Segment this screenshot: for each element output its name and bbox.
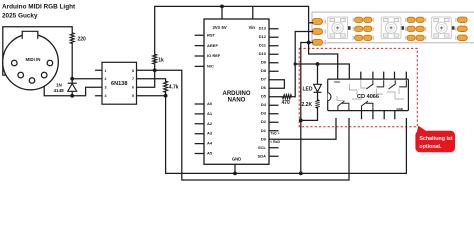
svg-text:RST: RST [207, 32, 216, 37]
svg-text:4148: 4148 [54, 88, 65, 93]
svg-text:3V3: 3V3 [213, 25, 221, 30]
svg-text:Schaltung ist: Schaltung ist [419, 136, 452, 142]
svg-text:D0: D0 [261, 136, 267, 141]
svg-text:D4: D4 [261, 102, 267, 107]
svg-text:5: 5 [132, 94, 134, 98]
svg-text:D10: D10 [259, 51, 267, 56]
svg-text:D9: D9 [261, 60, 267, 65]
svg-text:6: 6 [132, 86, 134, 90]
svg-text:3: 3 [105, 86, 107, 90]
svg-text:Vin: Vin [249, 25, 256, 30]
svg-text:A4: A4 [207, 141, 213, 146]
svg-text:VCC: VCC [334, 80, 341, 84]
svg-text:2.2K: 2.2K [302, 102, 313, 108]
svg-text:ARDUINO: ARDUINO [223, 91, 251, 97]
svg-text:D12: D12 [259, 34, 267, 39]
svg-text:A0: A0 [207, 101, 213, 106]
svg-text:4.7k: 4.7k [169, 85, 179, 91]
svg-text:IO REF: IO REF [207, 53, 221, 58]
svg-text:TxD >: TxD > [270, 132, 279, 136]
svg-text:A1: A1 [207, 111, 213, 116]
svg-text:A2: A2 [207, 121, 213, 126]
svg-text:D3: D3 [261, 111, 267, 116]
svg-text:SCL: SCL [258, 145, 267, 150]
svg-text:2025 Gucky: 2025 Gucky [2, 13, 38, 20]
svg-text:D5: D5 [261, 94, 267, 99]
svg-text:A3: A3 [207, 131, 213, 136]
svg-text:8: 8 [132, 69, 134, 73]
svg-text:LED: LED [303, 86, 313, 92]
svg-text:D8: D8 [261, 68, 267, 73]
svg-text:D7: D7 [261, 77, 267, 82]
svg-text:D13: D13 [259, 26, 267, 31]
svg-text:SDA: SDA [258, 153, 267, 158]
svg-text:AREF: AREF [207, 43, 218, 48]
svg-text:D11: D11 [259, 43, 267, 48]
svg-text:D1: D1 [261, 128, 267, 133]
svg-text:D6: D6 [261, 85, 267, 90]
svg-text:N/C: N/C [207, 64, 214, 69]
svg-text:1N: 1N [56, 83, 63, 88]
svg-text:A5: A5 [207, 151, 213, 156]
svg-text:1k: 1k [158, 58, 164, 64]
svg-text:optional.: optional. [419, 144, 442, 150]
svg-text:7: 7 [132, 77, 134, 81]
svg-text:470: 470 [282, 100, 291, 106]
svg-text:2: 2 [105, 77, 107, 81]
svg-text:Arduino MIDI RGB Light: Arduino MIDI RGB Light [2, 4, 76, 11]
svg-text:GND: GND [396, 107, 404, 111]
svg-text:6N138: 6N138 [111, 81, 127, 87]
svg-text:NANO: NANO [228, 97, 246, 103]
svg-text:GND: GND [232, 156, 241, 161]
svg-text:MIDI IN: MIDI IN [26, 57, 41, 62]
svg-text:1: 1 [105, 69, 107, 73]
svg-text:5V: 5V [222, 25, 227, 30]
svg-text:4: 4 [105, 94, 107, 98]
svg-text:220: 220 [78, 37, 87, 43]
svg-text:D2: D2 [261, 119, 267, 124]
svg-text:< RxD: < RxD [270, 140, 280, 144]
